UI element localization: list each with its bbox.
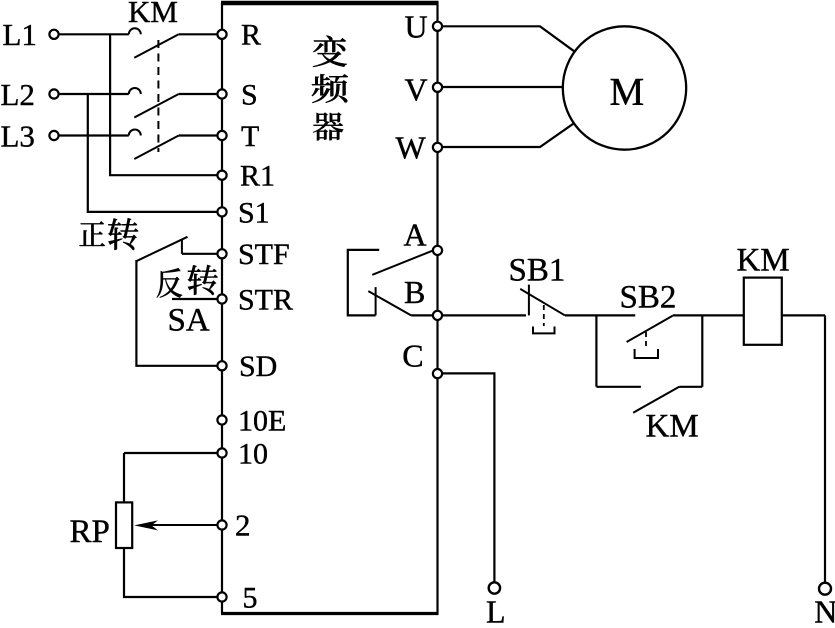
svg-text:SB1: SB1	[509, 252, 566, 288]
svg-text:R: R	[241, 19, 261, 52]
svg-text:KM: KM	[128, 0, 178, 29]
svg-text:2: 2	[235, 508, 251, 543]
svg-text:KM: KM	[646, 409, 699, 445]
svg-text:C: C	[402, 337, 423, 373]
svg-text:L: L	[486, 593, 506, 623]
svg-text:M: M	[610, 70, 645, 113]
svg-text:SD: SD	[239, 350, 277, 383]
svg-text:A: A	[404, 216, 427, 252]
svg-text:L2: L2	[1, 77, 35, 112]
svg-text:W: W	[396, 130, 427, 166]
svg-text:V: V	[405, 71, 428, 107]
svg-text:5: 5	[243, 581, 258, 614]
svg-text:RP: RP	[70, 514, 110, 550]
svg-text:N: N	[814, 593, 835, 623]
svg-text:R1: R1	[240, 160, 275, 193]
svg-text:KM: KM	[737, 243, 790, 279]
svg-text:S: S	[241, 78, 258, 111]
svg-text:U: U	[405, 8, 428, 44]
svg-text:STR: STR	[238, 283, 293, 316]
svg-text:SA: SA	[168, 302, 210, 338]
svg-text:S1: S1	[238, 196, 270, 229]
svg-text:SB2: SB2	[620, 279, 677, 315]
svg-text:10: 10	[238, 437, 268, 470]
svg-text:B: B	[404, 274, 425, 310]
svg-text:10E: 10E	[238, 404, 286, 437]
svg-text:T: T	[241, 120, 259, 153]
svg-text:L1: L1	[3, 17, 37, 52]
svg-text:STF: STF	[238, 238, 290, 271]
svg-text:L3: L3	[1, 118, 35, 153]
